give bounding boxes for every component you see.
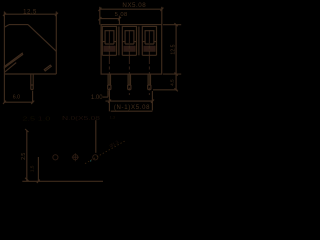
svg-text:NX5.08: NX5.08	[122, 2, 146, 9]
pole 1 center line	[108, 30, 110, 95]
pole 2 center line	[128, 30, 130, 95]
vent slot 1	[4, 53, 22, 67]
side body top-left chamfer	[4, 25, 9, 28]
front housing outline	[101, 25, 162, 75]
stray teal pixel	[90, 160, 91, 161]
footprint dim line inner	[37, 157, 39, 181]
ext line top right	[163, 24, 181, 26]
ext line right / side body right edge	[55, 12, 57, 75]
svg-text:N.0(X5.08: N.0(X5.08	[62, 116, 100, 122]
dotted leader diagonal	[85, 140, 126, 163]
pole 1 opening	[102, 26, 116, 55]
svg-text:2.5 1.0: 2.5 1.0	[22, 117, 50, 123]
ext line bottom right	[163, 73, 181, 75]
pin 2 front	[128, 74, 131, 89]
ext line N-1 right	[151, 91, 153, 110]
hole 3	[93, 155, 98, 160]
dim line 12.5	[3, 13, 58, 16]
pole 3 clamp cavity	[143, 46, 155, 52]
ext line 5.08 right	[118, 16, 120, 24]
pole 2 screw body	[125, 31, 134, 44]
footprint dim line left	[25, 129, 28, 181]
dim line NX5.08	[98, 8, 163, 11]
divider wall 1	[118, 26, 120, 55]
hole 2	[73, 155, 78, 160]
pole 3 center line	[148, 30, 150, 95]
pole 1 clamp cavity	[103, 46, 115, 52]
side body top-right chamfer	[28, 25, 56, 52]
pin 1 front	[108, 74, 111, 89]
pole 2 clamp cavity	[123, 46, 135, 52]
dim 6.0 right ext line	[32, 91, 34, 103]
pole 1 screw body	[105, 31, 114, 44]
pole 3 screw body	[145, 31, 154, 44]
ext line left / side body left edge	[3, 12, 5, 103]
dim line right vertical	[174, 23, 177, 91]
side body bottom edge	[4, 73, 56, 75]
svg-text:2.5: 2.5	[21, 153, 27, 160]
leader 1.00	[103, 90, 108, 97]
ext line N-1 left	[108, 90, 110, 111]
pole 3 opening	[142, 26, 156, 55]
svg-text:1.3: 1.3	[110, 114, 116, 119]
footprint baseline	[22, 180, 103, 183]
svg-text:6.0: 6.0	[13, 95, 20, 101]
hole 1	[53, 155, 58, 160]
pole 2 opening	[122, 26, 136, 55]
divider wall 2	[138, 26, 140, 55]
ext line front right	[161, 7, 163, 25]
pin 3 front	[148, 74, 151, 89]
side body top edge	[9, 24, 28, 26]
dim line N-1	[106, 100, 155, 103]
vent slot 2	[44, 65, 51, 71]
side pin	[31, 74, 33, 90]
svg-text:4.5: 4.5	[169, 79, 174, 86]
ext line pin bottom right	[153, 89, 177, 91]
svg-text:(N-1)X5.08: (N-1)X5.08	[114, 105, 150, 111]
svg-text:1.00: 1.00	[91, 95, 103, 101]
hole 2 crosshair	[72, 153, 79, 161]
svg-text:1.5: 1.5	[29, 165, 34, 172]
svg-text:12.5: 12.5	[171, 44, 177, 54]
hole 3 leader vertical	[95, 120, 97, 153]
ext line front left	[99, 7, 101, 25]
dim line 6.0	[3, 101, 34, 104]
hatch line	[4, 63, 16, 73]
dim frame N-1	[111, 110, 153, 112]
dim line 5.08	[98, 17, 121, 20]
